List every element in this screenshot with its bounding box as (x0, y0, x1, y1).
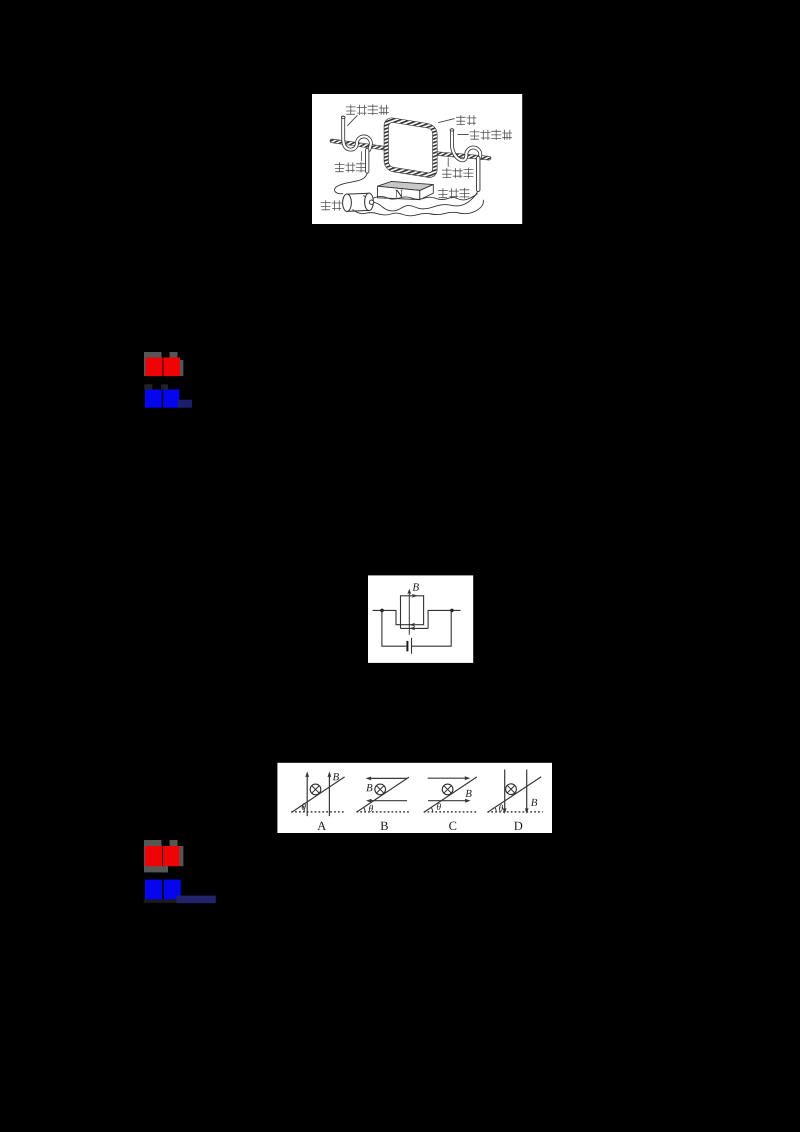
coil rectangle (401, 596, 424, 625)
left support lower tube (365, 150, 369, 171)
label jinshuzhijia left (346, 104, 389, 115)
right axle rod hatch (437, 154, 489, 159)
analysis label 1 navy tail (178, 400, 192, 408)
option B incline (357, 777, 409, 812)
option A theta (302, 803, 306, 810)
option A field line 2 (up) (328, 776, 330, 817)
leader line left bracket (347, 115, 357, 126)
option D incline (488, 777, 541, 812)
battery short thick plate (406, 641, 408, 652)
option D letter (514, 822, 522, 830)
option A field line 1 (up) (306, 776, 308, 817)
analysis label 2 navy tail (176, 896, 216, 904)
figure 1 white panel (312, 94, 522, 224)
label yongcitie (magnet) (438, 188, 470, 199)
leader line coil (439, 119, 455, 123)
coil lower second line (400, 625, 402, 629)
wire battery to right support (374, 191, 478, 211)
analysis label 2 dark shadow (144, 899, 177, 902)
B field axis line (408, 591, 410, 635)
wire left horizontal (373, 610, 401, 624)
analysis label 1 dark shadow (144, 384, 152, 389)
wire battery to left support (335, 172, 368, 194)
permanent magnet top face (378, 181, 434, 190)
left metal support tube (343, 118, 371, 150)
answer label 1 gray shadow (144, 352, 162, 376)
leader line right axle (447, 158, 449, 167)
battery long thin plate (411, 638, 413, 654)
option A incline (292, 777, 345, 812)
current arrow bottom2 (left) (410, 626, 416, 630)
option D B label (531, 799, 537, 806)
option C field line 1 (right) (428, 777, 467, 779)
option B field-into-page ball (375, 784, 386, 795)
analysis label 1 blue text blob (145, 390, 162, 408)
right support lower tube (476, 158, 480, 190)
option A ground dotted line (291, 811, 345, 813)
wire outer loop left (382, 610, 406, 646)
answer label 1 red text blob (146, 358, 163, 377)
permanent magnet front face (378, 186, 420, 199)
battery right cap (365, 193, 374, 210)
option B angle arc (364, 807, 366, 812)
label xianquan (coil) (456, 115, 476, 125)
magnet N pole letter (395, 190, 403, 198)
option A B label (333, 773, 339, 780)
leader line right bracket (457, 134, 468, 136)
option D angle arc (495, 807, 497, 812)
option A letter (317, 822, 326, 830)
junction dot left (380, 609, 384, 613)
right axle rod outline (437, 154, 489, 159)
left support cap (341, 116, 345, 118)
cloud wave under magnet (upper) (364, 194, 478, 200)
option D field line 2 (down) (526, 770, 528, 810)
right support cap (450, 129, 454, 131)
option C incline (424, 777, 477, 812)
option D theta (499, 805, 503, 812)
option B theta (369, 805, 373, 812)
answer label 2 red text blob (145, 846, 162, 866)
label dianchi (battery) (321, 200, 342, 210)
battery cylinder body (347, 193, 369, 211)
label zuozhuanzhou (left axle) (335, 162, 367, 173)
option B ground dotted line (356, 811, 409, 813)
junction dot right (450, 609, 454, 613)
answer label 2 gray shadow (144, 840, 162, 872)
label youzhuanzhou (right axle) (442, 168, 474, 179)
wire right riser (428, 610, 461, 628)
option C theta (437, 803, 441, 810)
analysis label 2 blue text blob (145, 880, 162, 900)
option C angle arc (431, 807, 433, 812)
option C field line 2 (right) (428, 800, 467, 802)
option C ground dotted line (424, 811, 479, 813)
current arrow top (right) (412, 594, 418, 598)
option B B label (366, 784, 372, 791)
option B field line 1 (left) (370, 777, 408, 779)
right metal support tube (452, 130, 480, 160)
figure 2 white panel (368, 575, 473, 663)
permanent magnet right face (420, 185, 434, 200)
option D ground dotted line (487, 811, 542, 813)
option C field-into-page ball (442, 784, 453, 795)
figure 3 white panel (277, 763, 552, 833)
wire outer loop right (412, 610, 452, 646)
option A angle arc (302, 805, 304, 812)
label jinshuzhijia right (470, 129, 512, 140)
current arrow bottom1 (left) (410, 623, 416, 627)
option C letter (449, 822, 456, 830)
left axle rod outline (332, 141, 385, 148)
option B letter (381, 822, 388, 830)
cloud wave under magnet (lower) (353, 200, 484, 216)
option D field line 1 (down) (504, 770, 506, 810)
option A field-into-page ball (310, 784, 321, 795)
option D field-into-page ball (506, 784, 517, 795)
battery left cap (343, 194, 352, 211)
coil ring (hatched square loop) (386, 119, 435, 176)
option C B label (465, 790, 471, 797)
B field label (413, 583, 419, 590)
leader line left axle (361, 152, 363, 162)
battery terminal button (369, 200, 373, 204)
option B field line 2 (left) (370, 800, 407, 802)
left axle rod hatch (332, 141, 385, 148)
B axis arrowhead (407, 589, 411, 595)
